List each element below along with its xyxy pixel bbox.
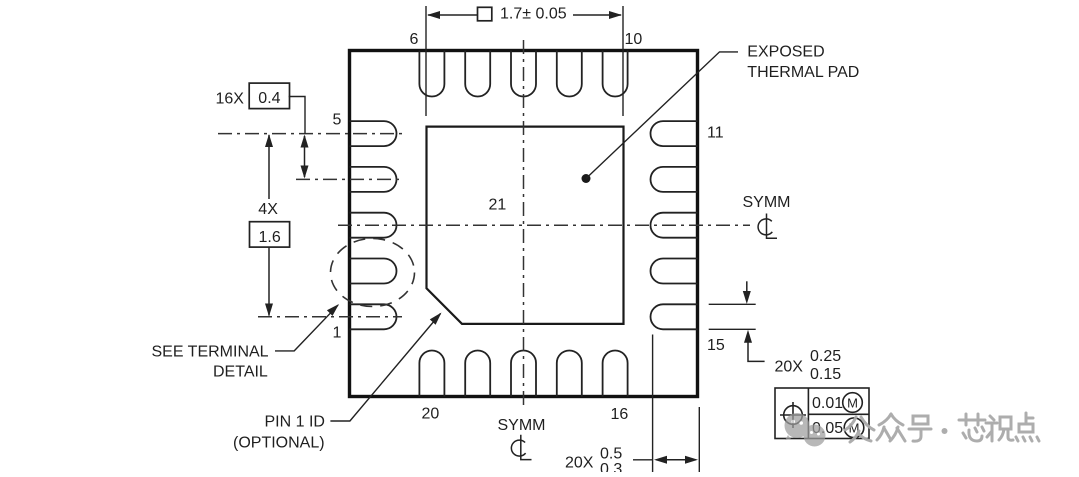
vertical SYMM centerline xyxy=(523,40,525,408)
pin length extension line inner xyxy=(652,335,654,473)
watermark logo xyxy=(785,413,826,447)
char hao xyxy=(913,416,928,424)
SYMM bottom centerline symbol xyxy=(511,435,531,460)
pin 20 xyxy=(419,351,444,397)
pin width down arrow xyxy=(743,281,751,304)
svg-text:DETAIL: DETAIL xyxy=(213,364,268,381)
pin length extension line outer xyxy=(698,407,700,472)
pin 10 xyxy=(603,51,628,97)
20X 0.25/0.15 text xyxy=(775,348,842,383)
pin 4 xyxy=(350,167,397,192)
package outline xyxy=(350,51,698,397)
pin 6 xyxy=(419,51,444,97)
svg-text:21: 21 xyxy=(489,197,507,214)
char shi xyxy=(990,416,994,420)
svg-text:0.15: 0.15 xyxy=(810,366,841,383)
16X pitch callout xyxy=(216,83,306,134)
watermark text (stroke approximation of CJK glyphs) xyxy=(845,413,1039,442)
svg-text:0.4: 0.4 xyxy=(258,90,280,107)
char zhong xyxy=(879,414,891,425)
pin 4 centerline xyxy=(296,178,402,180)
tolerance 0.01 M xyxy=(812,393,862,413)
pad width dimension extension line right xyxy=(622,6,624,116)
char xin xyxy=(959,419,985,422)
pin 5 centerline xyxy=(218,133,402,135)
pin 14 xyxy=(650,259,697,284)
svg-text:THERMAL PAD: THERMAL PAD xyxy=(747,64,859,81)
char dian xyxy=(1025,413,1028,424)
svg-text:0.5: 0.5 xyxy=(600,446,622,463)
pin 19 xyxy=(465,351,490,397)
tolerance 0.05 M xyxy=(812,418,864,438)
pin 11 xyxy=(651,121,698,146)
svg-text:10: 10 xyxy=(625,31,643,48)
svg-text:11: 11 xyxy=(707,125,724,142)
pin 5 xyxy=(350,121,397,146)
svg-text:5: 5 xyxy=(333,112,342,129)
pin 13 xyxy=(650,213,697,238)
pin width up arrow with leader xyxy=(744,330,765,362)
svg-text:PIN 1 ID: PIN 1 ID xyxy=(265,414,325,431)
pin 2 xyxy=(350,259,397,284)
20X 0.5/0.3 text xyxy=(565,446,622,477)
svg-text:0.3: 0.3 xyxy=(600,461,622,472)
svg-text:EXPOSED: EXPOSED xyxy=(747,44,824,61)
pin 17 xyxy=(557,351,582,397)
pin 18 xyxy=(511,351,536,397)
SEE TERMINAL DETAIL callout xyxy=(152,304,340,381)
svg-text:1.6: 1.6 xyxy=(259,229,281,246)
pin 15 xyxy=(650,304,697,329)
dimension line with arrows 1.7 xyxy=(427,11,622,19)
pin 1 xyxy=(350,304,397,329)
svg-text:20X: 20X xyxy=(565,455,594,472)
feature control frame xyxy=(775,388,869,439)
svg-text:4X: 4X xyxy=(258,201,278,218)
EXPOSED THERMAL PAD callout xyxy=(582,44,860,184)
svg-text:16X: 16X xyxy=(216,91,245,108)
exposed thermal pad outline with pin1 chamfer xyxy=(427,127,624,324)
pin 7 xyxy=(465,51,490,97)
svg-text:15: 15 xyxy=(707,337,725,354)
svg-text:1: 1 xyxy=(333,325,342,342)
pin15 width extension lines xyxy=(709,303,756,305)
svg-text:20X: 20X xyxy=(775,359,804,376)
square symbol xyxy=(478,7,492,20)
pitch dimension double arrow xyxy=(301,135,309,179)
svg-text:SYMM: SYMM xyxy=(498,417,546,434)
svg-text:SEE TERMINAL: SEE TERMINAL xyxy=(152,344,269,361)
svg-text:1.7± 0.05: 1.7± 0.05 xyxy=(500,5,567,22)
pin 16 xyxy=(603,351,628,397)
svg-text:6: 6 xyxy=(410,31,419,48)
pin 1 centerline xyxy=(258,316,402,318)
pad width dimension extension line left xyxy=(425,6,427,116)
svg-text:20: 20 xyxy=(422,406,440,423)
svg-text:16: 16 xyxy=(611,406,629,423)
SYMM right centerline symbol xyxy=(758,214,777,239)
svg-text:0.01: 0.01 xyxy=(812,395,843,412)
separator dot xyxy=(942,428,948,434)
char gong xyxy=(845,417,856,430)
pin 8 xyxy=(511,51,536,97)
position symbol xyxy=(780,402,806,428)
svg-text:M: M xyxy=(847,396,858,411)
pin 9 xyxy=(557,51,582,97)
pin length dimension arrows xyxy=(633,456,698,464)
4X 1.6 dimension xyxy=(250,134,290,317)
svg-text:(OPTIONAL): (OPTIONAL) xyxy=(233,435,325,452)
terminal detail dashed circle xyxy=(331,239,415,307)
svg-text:0.25: 0.25 xyxy=(810,348,841,365)
horizontal SYMM centerline xyxy=(338,224,750,226)
pin 3 xyxy=(350,213,397,238)
PIN 1 ID callout xyxy=(233,313,442,452)
pin 12 xyxy=(650,167,697,192)
svg-text:SYMM: SYMM xyxy=(743,194,791,211)
